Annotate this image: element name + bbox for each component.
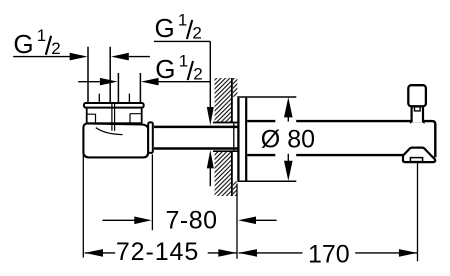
- dimension 7-80: [102, 207, 276, 235]
- svg-text:7-80: 7-80: [165, 207, 217, 235]
- union nut: [148, 122, 153, 152]
- leader line from aerator / extension right: [417, 163, 419, 261]
- elbow inner arc: [96, 128, 123, 135]
- elbow union body: [83, 123, 148, 157]
- leader line left riser with arrow: [13, 53, 87, 61]
- label G1/2 top-left: [13, 26, 60, 59]
- svg-text:1: 1: [179, 51, 188, 70]
- flange bottom edge + dia extension line: [237, 180, 296, 182]
- aerator outlet: [410, 158, 422, 162]
- extension line from union nut: [151, 154, 153, 230]
- wall hatched section: [215, 78, 238, 196]
- arrow left side of right riser: [78, 78, 118, 86]
- connection pipe (G 1/2 nipple): [154, 123, 238, 152]
- dia 80 dimension arrows: [284, 97, 293, 181]
- spout tube: [247, 121, 435, 157]
- diverter knob: [408, 85, 426, 106]
- extension line wall face: [236, 184, 238, 259]
- diverter knob notch: [415, 108, 421, 111]
- aerator housing: [403, 148, 435, 163]
- diverter knob stem: [410, 107, 425, 122]
- wall flange escutcheon: [238, 98, 246, 181]
- svg-text:G: G: [155, 13, 175, 43]
- svg-text:1: 1: [178, 10, 187, 29]
- top flange plate: [84, 103, 144, 108]
- wall front face line: [231, 78, 233, 196]
- svg-text:2: 2: [51, 39, 60, 58]
- extension line from elbow left: [82, 151, 84, 258]
- central waterway channel lines: [112, 103, 115, 131]
- svg-text:2: 2: [192, 23, 201, 42]
- svg-text:72-145: 72-145: [116, 238, 199, 266]
- leader with arrow to right riser: [141, 78, 210, 86]
- dimension 170: [239, 240, 418, 268]
- svg-text:2: 2: [193, 64, 202, 83]
- dimension 72-145: [85, 238, 237, 266]
- body shoulder lines: [87, 114, 141, 123]
- riser pipe left (supply): [88, 47, 110, 103]
- svg-text:1: 1: [37, 26, 46, 45]
- svg-text:Ø 80: Ø 80: [261, 126, 315, 154]
- leader: underline, drop line and arrows to connection pipe: [154, 41, 214, 186]
- arrow right side of left riser: [111, 53, 150, 61]
- riser pipe right (supply): [118, 73, 140, 103]
- union flange body block: [87, 108, 142, 124]
- label G1/2 middle: [155, 51, 202, 84]
- label G1/2 top-middle: [155, 10, 202, 43]
- svg-text:170: 170: [308, 240, 350, 268]
- flange top edge + dia extension line: [237, 96, 296, 98]
- svg-text:G: G: [13, 29, 33, 59]
